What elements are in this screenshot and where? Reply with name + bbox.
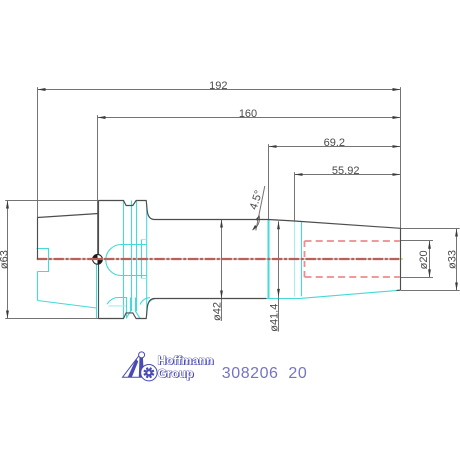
svg-text:ø33: ø33 — [446, 250, 458, 269]
svg-text:Group: Group — [158, 366, 194, 380]
svg-text:ø20: ø20 — [418, 250, 430, 269]
svg-text:69.2: 69.2 — [324, 137, 345, 149]
svg-text:ø63: ø63 — [0, 250, 11, 269]
svg-text:308206: 308206 — [222, 365, 279, 382]
svg-text:192: 192 — [209, 80, 227, 92]
svg-text:160: 160 — [239, 108, 257, 120]
svg-text:ø42: ø42 — [212, 302, 224, 321]
svg-text:55.92: 55.92 — [332, 165, 360, 177]
svg-text:ø41.4: ø41.4 — [268, 304, 280, 332]
svg-text:20: 20 — [288, 365, 307, 382]
